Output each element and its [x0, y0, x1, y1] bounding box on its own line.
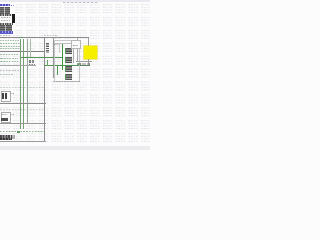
top toolbar strip [0, 0, 150, 2]
connector J1 pin row top [0, 135, 12, 138]
wire horizontal y51.8 [0, 51, 44, 52]
white backing under top-left IC [0, 4, 15, 35]
sheet name text [0, 35, 10, 36]
IC U1 body text [1, 17, 11, 18]
table column gap [4, 25, 7, 32]
X2 label [10, 114, 15, 115]
IC U2 [65, 48, 73, 54]
wire vertical x29.8 [29, 39, 32, 58]
component K1 box [71, 40, 81, 49]
IC U3 [65, 57, 73, 63]
X2 dark band [1, 118, 8, 121]
X2 inner mark [2, 114, 7, 115]
bottom scroll strip [0, 146, 150, 150]
pin labels column [46, 43, 49, 52]
wire horizontal green y65.1 right [44, 64, 90, 67]
highlight flag (yellow) [84, 46, 96, 59]
module box M1 [54, 40, 80, 82]
bus label rows lower [0, 53, 18, 56]
X1 label [10, 93, 15, 94]
component X2 box [1, 112, 11, 123]
wire vertical to flag [88, 38, 89, 46]
module footer labels [53, 81, 81, 82]
net label N1 (blue) [0, 4, 10, 6]
connector J2 pad B [32, 60, 34, 63]
sheet right border x44 [44, 37, 45, 142]
component X1 box [1, 91, 11, 102]
wire vertical x73.7 [72, 44, 75, 63]
module inner top wire [54, 42, 77, 45]
IC U1 top pin-name table [0, 7, 10, 14]
IC U5 [65, 74, 73, 79]
J2 label [29, 64, 35, 65]
IC U1 top pin row [0, 14, 13, 16]
junction green tick [19, 37, 22, 38]
sheet top border [0, 37, 89, 38]
wire vertical green x47.4 [47, 60, 48, 67]
wire vertical x77.8 [76, 38, 79, 62]
net label row y131.5 [0, 131, 44, 132]
wire vertical green x57.3 [57, 66, 58, 75]
wire horizontal y123 [0, 123, 46, 124]
node mark [11, 5, 13, 7]
net flag green [17, 131, 20, 134]
wire horizontal green y57.8 [21, 56, 63, 59]
sheet bottom border [0, 141, 46, 142]
J3 green pin marks [77, 63, 80, 65]
X1 pad 1 [2, 93, 4, 99]
bus label rows (green) [0, 39, 21, 42]
module inner divider [58, 43, 61, 53]
wire horizontal y65.6 gray left [0, 65, 36, 66]
connector J2 pad A [29, 60, 31, 63]
K1 marks [73, 45, 78, 47]
node mark b [13, 5, 14, 6]
module text [54, 44, 59, 45]
wire vertical green x62.8 [62, 44, 63, 70]
connector J3 bar [76, 61, 92, 62]
IC U4 [65, 66, 73, 72]
net label row y70.5 [0, 70, 20, 71]
J1 side box [12, 135, 15, 139]
connector J1 pin row bottom [0, 138, 12, 141]
canvas dot grid [0, 3, 150, 147]
wire vertical green x26.8 [26, 39, 29, 123]
IC U1 right-side black bar [12, 14, 14, 23]
IC U1 body [0, 16, 12, 23]
table column gap [3, 7, 6, 14]
IC U1 bottom pin row [0, 23, 13, 25]
sheet title text [63, 2, 98, 3]
IC U1 bottom pin-name table [0, 25, 12, 32]
wire vertical green x20.5 [19, 39, 22, 129]
X1 pad 2 [5, 93, 7, 99]
net label row y74.8 [0, 74, 14, 75]
J3 stem [88, 59, 89, 65]
sheet name text b [44, 35, 57, 36]
wire vertical x53.5 [53, 37, 54, 78]
net label N2 (blue, underlined) [0, 31, 13, 33]
net label row y87.5 [0, 87, 44, 88]
J3 pins [78, 63, 91, 66]
wire vertical green x23.5 [22, 39, 25, 129]
net label row y108.8 [0, 109, 44, 110]
wire horizontal y103 [0, 103, 46, 104]
